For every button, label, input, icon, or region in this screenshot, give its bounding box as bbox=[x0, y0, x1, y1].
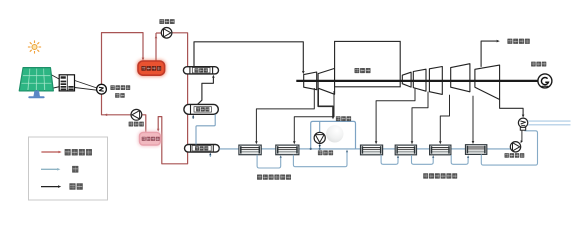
drain LP2 to LP3 bbox=[412, 155, 434, 164]
turbine HP stage 1 bbox=[304, 72, 317, 90]
label 低温储罐 bbox=[142, 137, 160, 141]
heater HP heater 2 bbox=[276, 145, 299, 155]
extraction to HP heater 1 bbox=[256, 88, 314, 143]
label 熔盐电极 bbox=[110, 85, 130, 90]
drain LP4 to condenser hotwell bbox=[481, 131, 537, 165]
extraction to LP heater 4 bbox=[472, 96, 474, 143]
wire: preheater outlet to cold tank (red) bbox=[158, 117, 187, 164]
heater LP heater 4 bbox=[466, 145, 487, 155]
wire: boiler top to hot tank (red) bbox=[102, 33, 144, 85]
panel stand bbox=[34, 91, 40, 97]
label 锅炉 bbox=[115, 93, 125, 98]
condenser bbox=[518, 118, 527, 127]
heat exchanger evaporator 蒸发器 bbox=[184, 104, 218, 114]
label 高温泵 bbox=[159, 19, 174, 24]
extraction to LP heater 2 bbox=[412, 92, 428, 143]
heat exchanger preheater 预热器 bbox=[185, 145, 220, 153]
label 水 bbox=[72, 166, 78, 173]
wire: pump to superheater downcomer (red) bbox=[172, 33, 188, 67]
heat exchanger superheater 过热器 bbox=[183, 67, 218, 74]
wire inverter to electrode boiler bbox=[75, 81, 97, 89]
heater HP heater 1 bbox=[239, 145, 261, 155]
wire: water stub under preheater bbox=[209, 153, 211, 157]
solar PV panel bbox=[19, 68, 53, 91]
label 汽轮机 bbox=[355, 68, 371, 73]
wire: hot tank to high-temp pump (red) bbox=[155, 33, 157, 61]
pump 给水泵 bbox=[314, 132, 325, 143]
label 给水泵 bbox=[318, 150, 333, 155]
wire: red line through exchanger caps bbox=[187, 67, 189, 145]
turbine LP stage 2 bbox=[413, 69, 426, 91]
legend: water (blue) bbox=[41, 168, 58, 170]
label 蒸汽 bbox=[69, 183, 82, 190]
wire: cold tank to low-temp pump to boiler (red) bbox=[102, 94, 146, 132]
main feedwater line (blue) bbox=[219, 148, 239, 150]
deaerator sphere 除氧器 bbox=[326, 125, 343, 142]
turbine LP stage 5 bbox=[475, 65, 500, 99]
turbine LP stage 4 bbox=[451, 64, 470, 92]
shaft bbox=[296, 80, 538, 82]
wire PV panel to inverter bbox=[49, 74, 60, 80]
label 发电机 bbox=[531, 62, 546, 67]
extraction to LP heater 1 bbox=[376, 88, 415, 143]
cooling water lines bbox=[528, 120, 571, 122]
label 抽汽供热 bbox=[507, 39, 529, 44]
label 高压加热器组 bbox=[257, 175, 291, 180]
drain LP1 to LP2 bbox=[381, 155, 398, 164]
condenser hotwell stub bbox=[520, 127, 525, 130]
exhaust to condenser bbox=[500, 100, 523, 116]
hot tank 高温储罐 bbox=[137, 60, 167, 77]
drain HP1 to HP2 bbox=[257, 155, 281, 168]
label 储能工质 bbox=[65, 149, 92, 156]
wire: water inlet stub under evaporator bbox=[192, 116, 194, 119]
extraction steam heating line 抽汽供热 bbox=[481, 41, 497, 67]
legend: storage medium (red) bbox=[41, 151, 59, 153]
extraction to deaerator bbox=[318, 89, 333, 118]
label 低温泵 bbox=[129, 122, 144, 127]
legend box bbox=[29, 137, 108, 200]
pump 高温泵 bbox=[161, 28, 172, 39]
label 凝结水泵 bbox=[505, 153, 525, 158]
wire: evaporator steam riser to superheater (black) bbox=[197, 76, 213, 104]
heater LP heater 3 bbox=[430, 145, 451, 155]
extraction to HP heater 2 bbox=[294, 91, 334, 143]
label 低压加热器组 bbox=[423, 173, 457, 178]
cold tank 低温储罐 bbox=[138, 131, 162, 147]
electrode boiler 熔盐电极锅炉 bbox=[97, 84, 107, 94]
label 除氧器 bbox=[336, 116, 351, 121]
deaerator loop (blue) bbox=[311, 121, 356, 148]
turbine casing box 汽轮机 bbox=[335, 41, 401, 86]
legend: steam (black) bbox=[41, 186, 59, 188]
wire: evaporator to preheater water connector (blue) bbox=[196, 114, 215, 144]
turbine HP stage 2 bbox=[318, 68, 335, 94]
heater LP heater 2 bbox=[395, 145, 416, 155]
drain HP2 to feed line bbox=[293, 151, 347, 167]
extraction to LP heater 3 bbox=[440, 95, 449, 143]
generator 发电机 bbox=[538, 74, 552, 88]
pump 凝结水泵 bbox=[510, 142, 520, 152]
heater LP heater 1 bbox=[361, 145, 383, 155]
wire: hotwell to condensate pump bbox=[521, 130, 523, 141]
drain LP3 to LP4 bbox=[451, 155, 468, 164]
label 高温储罐 bbox=[141, 66, 161, 71]
sun bbox=[28, 40, 41, 53]
pump 低温泵 bbox=[131, 109, 142, 120]
inverter cabinet bbox=[59, 75, 74, 91]
wire: superheater steam line to turbine (black) bbox=[194, 42, 303, 73]
feedwater pump riser bbox=[319, 121, 321, 148]
turbine LP stage 1 bbox=[402, 72, 411, 87]
turbine LP stage 3 bbox=[429, 67, 442, 95]
